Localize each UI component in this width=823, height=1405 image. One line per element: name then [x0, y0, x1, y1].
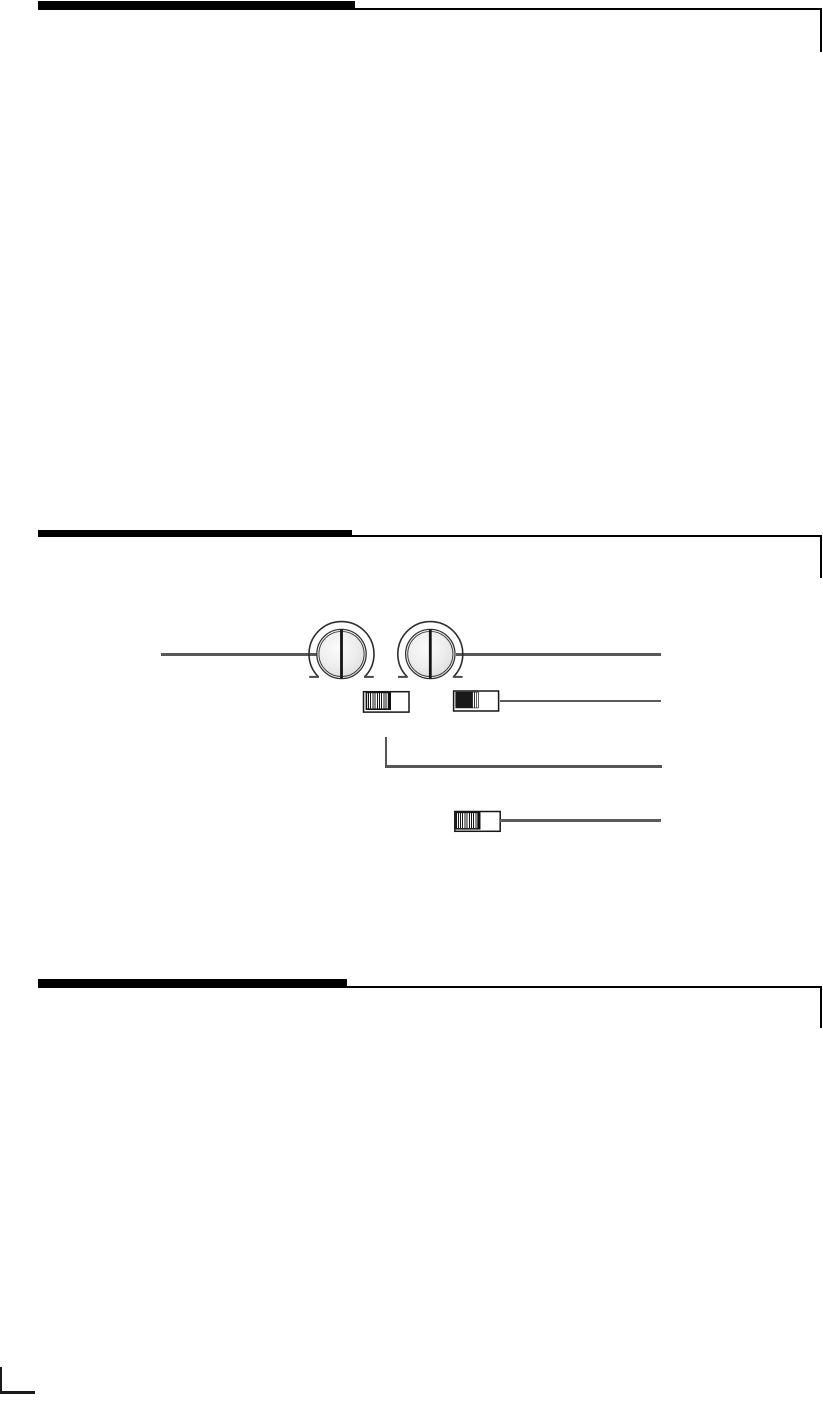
right margin line 1 [820, 10, 822, 52]
header rule 3 [347, 986, 822, 988]
knob 2 [394, 618, 468, 690]
slider switch B (black knob) [452, 689, 501, 713]
bottom-left corner mark: horizontal segment [0, 1391, 35, 1395]
header bar 3 [38, 979, 347, 988]
header bar 2 [38, 530, 352, 537]
knob 1 [305, 618, 379, 690]
header bar 1 [38, 1, 355, 10]
right margin line 3 [820, 988, 822, 1028]
slider switch C (hatched, bottom) [453, 809, 502, 833]
header rule 1 [355, 8, 822, 10]
header rule 2 [352, 535, 822, 537]
right margin line 2 [820, 537, 822, 578]
wire right of knob 2 [456, 653, 661, 656]
wire left of knob 1 [161, 653, 320, 656]
wire from switch B [500, 700, 661, 703]
wire from switch C [500, 819, 661, 822]
bottom-left corner mark: vertical segment [0, 1367, 2, 1394]
L-shaped callout wire: vertical segment [385, 737, 388, 768]
L-shaped callout wire: horizontal segment [385, 765, 662, 768]
slider switch A (hatched, left) [362, 690, 411, 714]
